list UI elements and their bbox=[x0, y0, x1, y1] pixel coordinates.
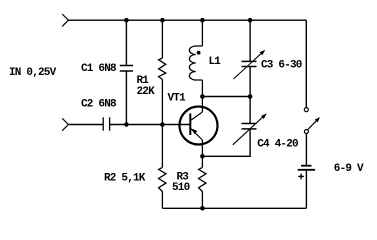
svg-text:C4 4-20: C4 4-20 bbox=[257, 139, 298, 151]
capacitor C3 bbox=[242, 20, 257, 96]
inductor L1 bbox=[189, 20, 202, 96]
L1 phasing dot bbox=[197, 51, 201, 55]
transistor VT1 bbox=[180, 97, 218, 157]
junction top C1 bbox=[124, 18, 129, 23]
wire input row bbox=[68, 124, 103, 126]
resistor R1 bbox=[159, 20, 166, 124]
junction emitter bbox=[200, 154, 205, 159]
resistor R2 bbox=[159, 125, 166, 209]
junction bottom R3 bbox=[200, 206, 205, 211]
svg-text:R2 5,1K: R2 5,1K bbox=[104, 173, 146, 185]
wire battery to bottom rail bbox=[305, 171, 307, 209]
svg-text:6-9 V: 6-9 V bbox=[334, 163, 364, 175]
capacitor C2 bbox=[103, 117, 109, 130]
C4 arrow bbox=[233, 113, 267, 144]
switch S1 bbox=[304, 108, 320, 134]
svg-text:C1 6N8: C1 6N8 bbox=[81, 63, 117, 75]
wire C2 to base bbox=[110, 124, 191, 126]
svg-text:C2 6N8: C2 6N8 bbox=[81, 99, 117, 111]
svg-text:IN 0,25V: IN 0,25V bbox=[9, 67, 57, 79]
junction tank C3 bbox=[248, 94, 253, 99]
wire top rail bbox=[68, 19, 306, 21]
svg-text:C3 6-30: C3 6-30 bbox=[261, 59, 302, 71]
wire right rail bbox=[305, 20, 307, 107]
junction top L1 bbox=[200, 18, 205, 23]
svg-text:510: 510 bbox=[172, 182, 190, 194]
C3 arrow bbox=[234, 50, 266, 79]
battery GB1 bbox=[298, 166, 315, 180]
wire bottom rail bbox=[162, 207, 306, 209]
input terminal bottom bbox=[62, 118, 68, 130]
svg-text:VT1: VT1 bbox=[168, 92, 187, 104]
junction top R1 bbox=[160, 18, 165, 23]
wire switch to battery bbox=[305, 134, 307, 165]
svg-text:L1: L1 bbox=[209, 56, 222, 68]
junction tank L1 bbox=[200, 94, 205, 99]
input terminal top bbox=[62, 14, 68, 26]
wire tank row bbox=[202, 96, 250, 98]
junction input C1 bbox=[124, 122, 129, 127]
capacitor C1 bbox=[120, 20, 133, 124]
junction top C3 bbox=[248, 18, 253, 23]
resistor R3 bbox=[199, 156, 206, 208]
wire emitter row bbox=[202, 129, 250, 156]
svg-text:22K: 22K bbox=[137, 86, 156, 98]
capacitor C4 bbox=[242, 97, 257, 129]
junction input R2 bbox=[160, 122, 165, 127]
